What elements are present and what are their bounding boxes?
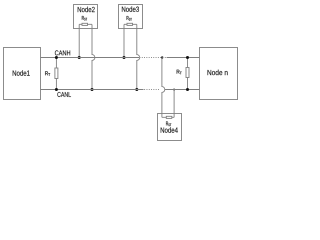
junction dot Node2-CANH	[78, 56, 81, 59]
junction dot RT-right top	[186, 56, 189, 59]
wire Node3 right down to CANL with hop over CANH	[137, 24, 140, 89]
junction dot RT-left top	[55, 56, 58, 59]
junction dot Node2-CANL	[91, 88, 94, 91]
node box Node2	[74, 5, 98, 29]
label Node4	[161, 127, 178, 133]
label RST of Node4	[166, 122, 171, 127]
wire Node2 left down to CANH	[78, 24, 80, 57]
resistor RST Node3	[124, 23, 137, 25]
wire Node3 left down to CANH	[123, 24, 125, 57]
label CANL	[57, 92, 71, 97]
resistor RT right termination	[186, 58, 189, 90]
resistor RST Node2	[79, 23, 92, 25]
node box Node n	[200, 48, 238, 100]
label CANH	[55, 50, 70, 55]
junction dot Node3-CANL	[135, 88, 138, 91]
label Node n	[208, 70, 228, 76]
wire CANL solid right segment	[165, 89, 200, 91]
resistor RST Node4	[162, 116, 174, 118]
junction dot Node4-CANH	[161, 56, 163, 58]
node box Node3	[119, 5, 143, 29]
wire Node2 right down to CANL with hop over CANH	[92, 24, 95, 89]
wire CANH solid right segment	[167, 57, 200, 59]
label RST of Node3	[127, 16, 132, 21]
label RST of Node2	[82, 16, 87, 21]
wire CANL solid left segment	[41, 89, 144, 91]
node box Node4	[158, 114, 182, 141]
wire Node4 right up to CANL	[173, 90, 175, 118]
label Node1	[13, 70, 30, 76]
junction dot RT-left bottom	[55, 88, 58, 91]
wire CANL dotted segment	[144, 89, 160, 91]
label Node2	[78, 7, 95, 13]
junction dot Node4-CANL	[173, 89, 175, 91]
junction dot RT-right bottom	[186, 88, 189, 91]
node box Node1	[4, 48, 41, 100]
label RT right	[177, 70, 182, 75]
label Node3	[122, 6, 139, 12]
wire CANH solid left segment	[41, 57, 140, 59]
label RT left	[45, 71, 50, 76]
wire CANH dotted segment	[140, 57, 166, 59]
junction dot Node3-CANH	[123, 56, 126, 59]
resistor RT left termination	[55, 58, 58, 90]
wire Node4 left up to CANH with hop over CANL	[162, 58, 165, 118]
